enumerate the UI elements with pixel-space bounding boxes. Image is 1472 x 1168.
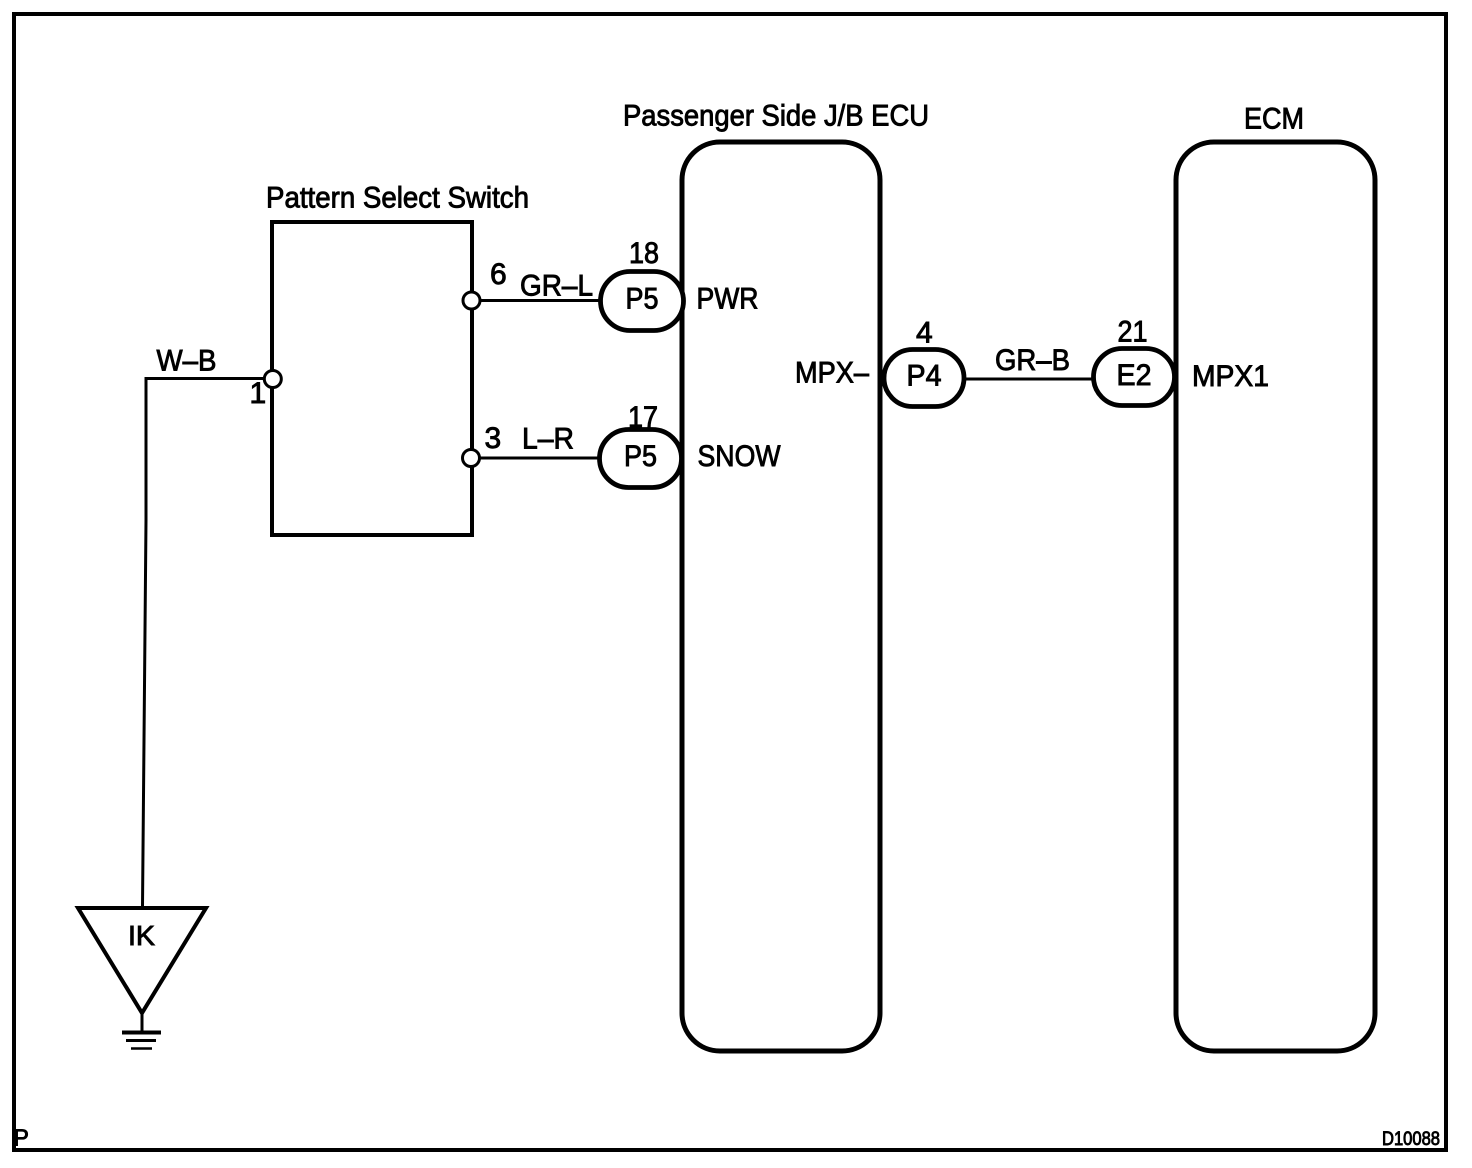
svg-text:3: 3 (485, 422, 502, 455)
svg-text:GR–B: GR–B (995, 344, 1070, 377)
svg-text:P5: P5 (626, 283, 659, 316)
connector block Pattern Select Switch (266, 182, 529, 536)
svg-text:W–B: W–B (157, 345, 217, 378)
svg-text:L–R: L–R (522, 423, 574, 456)
svg-text:PWR: PWR (697, 283, 759, 316)
ECU box ECM (1176, 103, 1375, 1052)
svg-text:6: 6 (490, 258, 507, 291)
svg-text:Pattern Select Switch: Pattern Select Switch (266, 182, 529, 215)
svg-text:17: 17 (628, 401, 658, 434)
svg-text:GR–L: GR–L (520, 270, 593, 303)
svg-text:P: P (14, 1125, 29, 1151)
connector P4 pin 4 (884, 317, 964, 407)
connector P5 pin 18 PWR (601, 237, 759, 331)
connector E2 pin 21 (1094, 316, 1175, 406)
node pin 6 (463, 258, 507, 309)
svg-text:D10088: D10088 (1382, 1129, 1440, 1150)
svg-text:ECM: ECM (1244, 103, 1304, 136)
svg-text:Passenger Side J/B ECU: Passenger Side J/B ECU (623, 100, 929, 133)
svg-text:IK: IK (128, 920, 155, 951)
svg-text:P4: P4 (907, 360, 942, 393)
node pin 1 (250, 371, 282, 411)
node pin 3 (463, 422, 502, 467)
svg-text:21: 21 (1118, 316, 1148, 349)
svg-text:E2: E2 (1117, 359, 1152, 392)
wire W-B (143, 345, 266, 907)
connector P5 pin 17 SNOW (600, 401, 782, 488)
svg-text:MPX1: MPX1 (1192, 360, 1269, 393)
svg-text:1: 1 (250, 377, 267, 410)
svg-text:P5: P5 (624, 440, 657, 473)
ground IK (78, 908, 206, 1049)
wire GR-B (964, 344, 1093, 379)
svg-text:SNOW: SNOW (698, 440, 782, 473)
junction box Passenger Side J/B ECU (623, 100, 929, 1052)
svg-text:MPX–: MPX– (795, 357, 869, 390)
svg-text:18: 18 (629, 237, 659, 270)
wire GR-L (479, 270, 602, 303)
svg-text:4: 4 (916, 317, 933, 350)
wire L-R (479, 423, 602, 459)
